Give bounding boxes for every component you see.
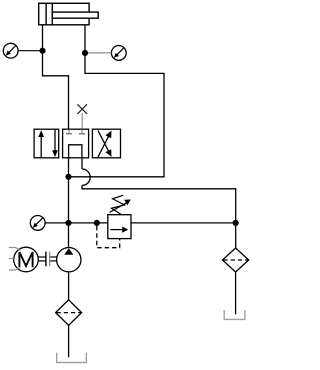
relief valve RV1 spring — [112, 195, 125, 214]
node junction J5 pilot tap — [94, 220, 100, 226]
wire right branch down to filter — [235, 223, 237, 248]
pressure gauge G3 — [30, 216, 45, 231]
node junction J1 — [39, 48, 45, 54]
pressure gauge G1 — [3, 43, 18, 58]
relief valve RV1 adjustment arrow — [110, 200, 131, 213]
pressure gauge G2 — [111, 46, 126, 61]
node junction J2 — [82, 50, 88, 56]
valve V1 right box crossed arrow 2 — [98, 131, 112, 157]
valve V1 right box crossed arrow 1 — [98, 131, 112, 157]
cylinder C1 body — [39, 3, 89, 25]
cylinder C1 piston — [46, 3, 52, 25]
filter F1 — [56, 300, 82, 326]
wire filter F1 to tank — [68, 325, 70, 357]
node junction J6 — [233, 220, 239, 226]
wire valve P port down — [68, 158, 70, 177]
wire cylinder right port around right side — [69, 25, 165, 177]
wire to relief valve — [69, 222, 108, 224]
wire filter F2 to tank — [235, 272, 237, 314]
coupling shaft — [38, 252, 56, 267]
tank T1 — [57, 353, 87, 363]
relief valve RV1 body — [108, 215, 131, 239]
wire main pressure line down — [68, 177, 70, 248]
valve V1 left box down arrow — [52, 130, 58, 157]
tank T2 — [224, 310, 245, 319]
valve V1 position box middle — [63, 129, 89, 158]
plugged port X (blanked B line) — [77, 104, 87, 129]
wire pump suction down — [68, 272, 70, 300]
wire valve T port with crossover hop — [82, 158, 236, 223]
valve V1 position box right — [92, 129, 120, 158]
wire gauge G1 link — [18, 50, 42, 52]
valve V1 middle box blocked port A — [66, 130, 72, 134]
wire gauge G2 link — [85, 52, 111, 54]
valve V1 middle box blocked port B — [79, 130, 85, 134]
valve V1 middle box P-T bypass arch — [69, 145, 82, 158]
cylinder C1 piston rod — [52, 12, 98, 18]
relief valve RV1 flow arrow — [110, 227, 128, 233]
valve V1 left box up arrow — [38, 130, 44, 157]
wire cylinder left port to valve A — [43, 25, 69, 129]
wire relief valve outlet to right branch — [131, 222, 236, 224]
motor M1 supply lines — [9, 248, 21, 271]
node junction J3 — [65, 174, 71, 180]
filter F2 — [223, 248, 249, 272]
node junction J4 — [65, 220, 71, 226]
wire gauge G3 link — [45, 222, 68, 224]
pump P1 — [57, 248, 81, 272]
motor M1 — [14, 247, 39, 272]
relief valve RV1 pilot line (dashed) — [97, 226, 120, 248]
valve V1 position box left — [34, 129, 59, 158]
